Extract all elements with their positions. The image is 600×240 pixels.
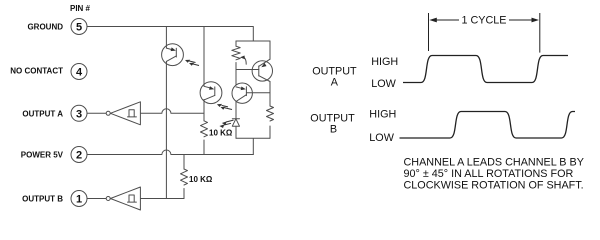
svg-text:LOW: LOW [369,132,394,144]
svg-text:NO CONTACT: NO CONTACT [10,67,63,76]
svg-text:5: 5 [76,22,82,34]
svg-text:HIGH: HIGH [371,56,398,68]
svg-text:CHANNEL A LEADS CHANNEL B BY: CHANNEL A LEADS CHANNEL B BY [404,157,584,169]
svg-text:POWER 5V: POWER 5V [21,150,64,159]
svg-text:OUTPUT B: OUTPUT B [22,194,63,203]
svg-text:1 CYCLE: 1 CYCLE [461,15,506,27]
svg-text:OUTPUT A: OUTPUT A [22,109,63,118]
svg-text:4: 4 [76,67,83,79]
svg-text:A: A [331,77,339,89]
svg-text:90° ± 45° IN ALL ROTATIONS FOR: 90° ± 45° IN ALL ROTATIONS FOR [404,168,574,180]
svg-text:PIN #: PIN # [70,4,91,13]
svg-text:HIGH: HIGH [369,109,396,121]
svg-text:CLOCKWISE ROTATION OF SHAFT.: CLOCKWISE ROTATION OF SHAFT. [404,180,584,192]
svg-text:10 KΩ: 10 KΩ [189,175,213,184]
svg-text:GROUND: GROUND [27,22,63,31]
svg-text:10 KΩ: 10 KΩ [209,129,233,138]
svg-text:2: 2 [76,150,82,162]
svg-text:B: B [330,124,337,136]
svg-text:LOW: LOW [371,78,396,90]
svg-text:3: 3 [76,109,82,121]
svg-text:1: 1 [76,194,82,206]
